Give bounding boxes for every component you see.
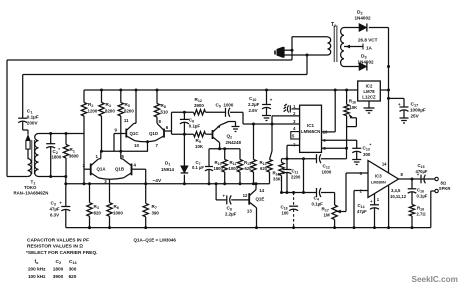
svg-text:1N914: 1N914 <box>161 167 174 172</box>
resistor R16 <box>346 90 348 104</box>
diode D1 <box>181 166 189 173</box>
capacitor C2 lead top <box>50 134 52 144</box>
svg-text:+: + <box>223 194 226 199</box>
node C6 bottom <box>183 133 186 136</box>
capacitor C10 <box>262 104 271 106</box>
svg-text:1000: 1000 <box>322 170 332 175</box>
resistor R12 <box>194 110 206 115</box>
node Q1B base bias <box>144 182 147 185</box>
svg-text:1000: 1000 <box>113 210 123 215</box>
svg-text:2.6V: 2.6V <box>249 108 258 113</box>
wire IC3 ground pins <box>388 186 390 228</box>
wire R15 top <box>281 159 283 163</box>
wire pin 10 to +12V <box>322 131 336 133</box>
capacitor C7 <box>205 166 213 168</box>
wire pin2 riser <box>271 116 273 124</box>
transistor Q1D <box>163 129 165 138</box>
svg-text:Q1A–Q1E = LM3046: Q1A–Q1E = LM3046 <box>134 238 177 243</box>
svg-text:10: 10 <box>134 143 139 148</box>
capacitor C9 <box>225 108 227 117</box>
transformer T1 core <box>31 140 33 174</box>
svg-text:1000: 1000 <box>229 166 239 171</box>
node C18 top <box>292 191 295 194</box>
svg-text:3,4,5: 3,4,5 <box>391 188 401 193</box>
node R17 bottom <box>333 226 336 229</box>
wire AC line A to T1 primary bottom <box>7 176 28 178</box>
node Q1C collector top <box>135 89 138 92</box>
node C17 junction <box>387 97 390 100</box>
capacitor C6 <box>183 112 185 119</box>
wire C9 down corner <box>230 111 243 113</box>
svg-text:1A: 1A <box>366 46 373 51</box>
wire IC3 pin1 to C14 <box>374 194 376 205</box>
svg-text:2.2µF: 2.2µF <box>248 102 260 107</box>
svg-text:Q1A: Q1A <box>97 166 107 171</box>
svg-text:IC1: IC1 <box>307 123 315 128</box>
capacitor C17 <box>400 106 409 108</box>
wire D1 to bias rail <box>183 175 185 184</box>
transformer T1 primary winding <box>28 159 32 177</box>
svg-text:620: 620 <box>260 166 268 171</box>
svg-text:390: 390 <box>152 211 160 216</box>
wire R5 bottom lead <box>120 116 122 151</box>
node Q1A base bias <box>83 182 86 185</box>
svg-text:100 kHz: 100 kHz <box>28 274 46 279</box>
node D3 cathode junction <box>387 65 390 68</box>
svg-text:Q1D: Q1D <box>149 131 158 136</box>
T2 center tap <box>344 46 363 48</box>
svg-text:200 kHz: 200 kHz <box>28 267 46 272</box>
node pin7 filter node <box>286 157 289 160</box>
svg-text:2200: 2200 <box>291 175 301 180</box>
capacitor C8 rail tap <box>215 184 217 200</box>
node C2 top <box>49 132 52 135</box>
svg-text:3900: 3900 <box>194 103 204 108</box>
wire C12 audio drop <box>303 159 305 193</box>
capacitor C12 <box>316 154 318 163</box>
node R8 top <box>156 89 159 92</box>
resistor R8 <box>156 90 158 104</box>
wire C16 to R18 <box>411 192 413 205</box>
wire C7 to rail <box>208 170 210 184</box>
wire bracket to R10 <box>224 149 226 160</box>
wire Q1D base riser <box>171 112 173 134</box>
svg-text:1N4002: 1N4002 <box>358 59 375 64</box>
svg-text:1000µF: 1000µF <box>410 108 426 113</box>
wire R2 to Q1A base node <box>83 116 85 184</box>
node Q1B collector junction <box>119 150 122 153</box>
resistor R7 <box>143 203 148 216</box>
wire Q1C base down <box>113 134 115 152</box>
node C11 bottom <box>286 191 289 194</box>
node Q1E collector on rail <box>255 182 258 185</box>
svg-text:8Ω: 8Ω <box>441 181 447 186</box>
svg-text:0.1µF: 0.1µF <box>189 123 201 128</box>
wire pin 9 to C13 <box>322 139 357 141</box>
svg-text:LM565CN: LM565CN <box>301 129 320 134</box>
node C7 bottom <box>208 182 211 185</box>
resistor R11 <box>237 160 242 173</box>
capacitor C18 <box>289 205 298 207</box>
svg-text:14: 14 <box>259 188 264 193</box>
svg-text:LM380N: LM380N <box>371 180 386 185</box>
svg-text:1000: 1000 <box>224 103 234 108</box>
IC1 pin 4-5 loop <box>291 132 300 139</box>
svg-text:1200: 1200 <box>88 108 98 113</box>
node D1 bottom <box>183 182 186 185</box>
resistor R14 <box>251 160 256 173</box>
wire C6 top line <box>172 111 194 113</box>
T1 tuning slug arrow <box>26 134 31 140</box>
resistor R4 <box>101 90 103 103</box>
node R4 top <box>100 89 103 92</box>
resistor R2 <box>83 90 85 103</box>
transistor Q1B <box>131 164 133 176</box>
wire AC line B long run <box>23 74 307 76</box>
resistor R3 <box>89 184 91 203</box>
transformer T2 secondary winding <box>341 28 344 67</box>
capacitor C8 <box>226 195 228 204</box>
node R1 top <box>65 132 68 135</box>
node R16 top <box>345 89 348 92</box>
svg-text:1M: 1M <box>324 213 330 218</box>
wire Q2 collector bracket <box>209 148 240 150</box>
svg-text:200V: 200V <box>27 121 39 126</box>
wire R13 top <box>271 124 273 151</box>
svg-text:1800: 1800 <box>53 267 64 272</box>
speaker terminal top <box>435 177 438 180</box>
wire ground bus <box>66 227 431 229</box>
svg-text:CAPACITOR VALUES IN PF: CAPACITOR VALUES IN PF <box>27 238 89 244</box>
wire rectified supply rail <box>388 67 390 173</box>
svg-text:100: 100 <box>282 211 290 216</box>
wire AC line A down <box>291 50 293 60</box>
svg-text:IC3: IC3 <box>375 174 382 179</box>
node R6 bottom <box>108 226 111 229</box>
resistor R13 <box>267 160 272 173</box>
node C6 top <box>183 111 186 114</box>
node Q1E emitter on bus <box>255 226 258 229</box>
svg-text:510: 510 <box>161 109 169 114</box>
wire tank bottom line <box>39 176 66 178</box>
svg-text:12: 12 <box>243 193 248 198</box>
svg-text:+: + <box>398 102 401 107</box>
PLL IC1 box <box>300 105 322 152</box>
node output junction <box>411 178 414 181</box>
svg-text:Q1E: Q1E <box>256 197 265 202</box>
svg-text:Q1C: Q1C <box>130 131 140 136</box>
wire C13 to ground <box>356 152 358 160</box>
svg-text:−4V: −4V <box>153 178 162 184</box>
transistor Q1C <box>125 129 127 138</box>
node C2 bottom <box>49 175 52 178</box>
wire emitter to R6 <box>109 179 111 202</box>
ground at Q2 <box>232 126 240 128</box>
capacitor C18 dashed leads <box>293 193 295 207</box>
svg-text:*: * <box>58 147 60 152</box>
svg-text:11: 11 <box>124 118 129 123</box>
resistor R10 <box>222 160 227 173</box>
wire C10 to ground <box>266 108 268 116</box>
resistor R15 <box>279 163 284 176</box>
wire AC line A left drop <box>6 60 8 177</box>
svg-text:3900: 3900 <box>53 274 64 279</box>
wire C12 line <box>282 158 317 160</box>
transformer T2 core <box>333 26 335 63</box>
svg-text:+: + <box>270 98 273 103</box>
wire C4 to R17 <box>321 192 335 194</box>
wire C6 node to D1 <box>183 134 185 166</box>
node R10 bottom <box>223 182 226 185</box>
transistor Q2 <box>212 130 214 139</box>
node R7 bottom <box>144 226 147 229</box>
svg-text:0.1µF: 0.1µF <box>27 115 39 120</box>
svg-text:2.7Ω: 2.7Ω <box>417 212 426 217</box>
capacitor C2 <box>46 143 55 145</box>
node R1 bottom <box>64 175 67 178</box>
node Q1CD emitters <box>146 140 149 143</box>
svg-text:26.8 VCT: 26.8 VCT <box>358 38 378 43</box>
svg-text:2N4248: 2N4248 <box>226 140 242 145</box>
svg-text:33K: 33K <box>273 177 281 182</box>
wire C12 to pin8 node <box>321 158 347 160</box>
wire C17 branch <box>389 97 405 99</box>
wire R12 to C9 <box>206 111 226 113</box>
wire speaker return <box>431 190 435 192</box>
wire +12V bus <box>84 89 358 91</box>
wire first-stage collector line <box>101 150 149 152</box>
wire Q1C Q1D emitters join <box>135 141 156 142</box>
wire emitters to collector line <box>147 142 149 152</box>
capacitor C16 tap <box>411 179 413 189</box>
wire C1 to tuning arrow <box>22 122 24 130</box>
resistor R5 <box>120 90 122 103</box>
node R11 bottom <box>239 182 242 185</box>
node R13 top junction <box>271 123 274 126</box>
svg-text:3600: 3600 <box>69 154 79 159</box>
node R5 top <box>119 89 122 92</box>
svg-text:10,11,12: 10,11,12 <box>390 194 407 199</box>
ground below C17 <box>400 117 409 119</box>
svg-text:14: 14 <box>382 161 387 166</box>
svg-text:TOKO: TOKO <box>24 185 37 190</box>
node R14 top junction <box>252 123 255 126</box>
svg-text:0.1µF: 0.1µF <box>417 194 428 199</box>
svg-text:1800: 1800 <box>52 155 62 160</box>
capacitor C1 <box>18 117 27 119</box>
svg-text:10K: 10K <box>195 144 204 149</box>
svg-text:SeekIC.com: SeekIC.com <box>412 275 458 284</box>
resistor R18 <box>409 205 414 217</box>
svg-text:*SELECT FOR CARRIER FREQ.: *SELECT FOR CARRIER FREQ. <box>26 250 97 256</box>
transistor Q1A <box>90 164 92 176</box>
wire bracket to R11 <box>239 149 241 160</box>
AC plug P1 <box>277 47 284 59</box>
svg-text:1800: 1800 <box>214 166 224 171</box>
node LM565 pin10 junction <box>334 89 337 92</box>
svg-text:LM78: LM78 <box>363 89 375 94</box>
node IC2 input junction <box>387 89 390 92</box>
wire plug riser to T2 primary top <box>291 37 293 51</box>
svg-text:820: 820 <box>94 210 102 215</box>
wire R9 line <box>172 133 194 135</box>
wire IC3 output <box>399 178 435 180</box>
node C8 rail junction <box>215 182 218 185</box>
IC1 pin 1 cap <box>292 108 300 110</box>
resistor R6 <box>107 203 112 217</box>
svg-text:Q1B: Q1B <box>115 166 124 171</box>
wire C17 to ground <box>403 111 405 119</box>
svg-text:+: + <box>59 201 62 206</box>
svg-text:47µF: 47µF <box>357 209 367 214</box>
svg-text:300: 300 <box>363 152 371 157</box>
svg-text:620: 620 <box>69 274 77 279</box>
wire T2 secondary top to D2 <box>344 27 359 29</box>
wire bracket to C7 <box>208 149 210 167</box>
svg-text:RESISTOR VALUES IN Ω: RESISTOR VALUES IN Ω <box>27 244 83 250</box>
svg-text:300: 300 <box>69 267 77 272</box>
audio amplifier IC3 <box>368 161 399 198</box>
wire C3 to ground bus <box>65 210 67 228</box>
node Q2 bracket <box>218 147 221 150</box>
svg-text:10K: 10K <box>350 105 358 110</box>
wire pin7 drop <box>287 144 300 146</box>
capacitor C16 <box>408 188 417 190</box>
capacitor C4 <box>316 188 318 197</box>
R17 wiper <box>336 210 341 214</box>
transformer T1 secondary winding <box>35 134 39 177</box>
capacitor C2 lead bottom <box>50 147 52 177</box>
node C12 drop bottom <box>302 191 305 194</box>
node pin 8 junction <box>345 147 348 150</box>
svg-text:8200: 8200 <box>105 108 115 113</box>
R16 wiper loop <box>348 113 352 119</box>
wire IC2 output to +12V bus <box>380 89 388 91</box>
resistor R9 <box>194 132 206 137</box>
resistor R17 volume pot <box>332 205 337 220</box>
svg-text:1N4002: 1N4002 <box>355 16 372 21</box>
node R14 bottom <box>252 182 255 185</box>
svg-text:SPKR: SPKR <box>439 186 451 191</box>
capacitor C3 <box>61 206 70 208</box>
ground below IC2 <box>364 107 375 109</box>
svg-text:*: * <box>370 143 372 148</box>
node IC3 pin2 ground <box>353 226 356 229</box>
node R10 top <box>223 147 226 150</box>
svg-text:47µF: 47µF <box>50 207 60 212</box>
voltage regulator IC2 <box>358 81 381 101</box>
wire arrow to T1 primary top <box>27 149 29 159</box>
node Q1A collector junction <box>100 150 103 153</box>
wire plug upper prong <box>284 49 293 51</box>
diode D3 <box>359 62 367 70</box>
node plug upper prong junction <box>291 49 294 52</box>
speaker terminal bottom <box>435 189 438 192</box>
wire R4 bottom lead <box>101 116 103 151</box>
wire AC line B down <box>306 55 308 75</box>
svg-text:6.3V: 6.3V <box>50 213 59 218</box>
node C18 bottom <box>292 226 295 229</box>
svg-text:470µF: 470µF <box>416 169 428 174</box>
capacitor C13 <box>352 147 361 149</box>
svg-text:L12CZ: L12CZ <box>362 95 376 100</box>
node IC3 ground pins on bus <box>387 226 390 229</box>
wire AC line A long run <box>7 59 292 61</box>
svg-text:RAN–10A6849ZN: RAN–10A6849ZN <box>14 191 49 196</box>
resistor R1 <box>65 134 67 145</box>
node R15 bottom <box>280 191 283 194</box>
wire AC line B left drop to C1 <box>22 75 24 119</box>
node R18 bottom <box>411 226 414 229</box>
node C12 drop top <box>302 157 305 160</box>
wire audio output line <box>282 192 317 194</box>
wire IC3 pin2 input <box>354 190 368 192</box>
wire -4V bias rail <box>66 183 270 185</box>
capacitor C10 lead <box>266 90 268 105</box>
svg-text:620: 620 <box>245 166 253 171</box>
diode D2 <box>359 23 367 31</box>
wire PLL input line <box>243 123 300 125</box>
capacitor C11 <box>286 159 288 170</box>
svg-text:13: 13 <box>247 209 252 214</box>
wire IC2 ground <box>368 101 370 108</box>
wire Q1B base to R7 <box>145 169 147 203</box>
wire R9 to Q2 base <box>206 133 213 135</box>
node C14 bottom <box>373 226 376 229</box>
node T2 primary bottom junction <box>306 54 309 57</box>
wire C8 to Q1E base <box>231 199 249 201</box>
transistor Q1E <box>248 193 250 205</box>
wire pin 8 to R16 node <box>322 147 347 149</box>
svg-text:2.2µF: 2.2µF <box>225 212 237 217</box>
wire Q1A Q1B emitters join <box>99 178 124 179</box>
wire T2 secondary bottom to D3 <box>344 66 359 68</box>
node tank return on bias rail <box>64 182 67 185</box>
node R3 bus <box>88 226 91 229</box>
wire tank return down <box>65 177 67 207</box>
node C10 top <box>265 89 268 92</box>
svg-text:0.1 µF: 0.1 µF <box>192 165 204 170</box>
wire R14 top <box>253 124 255 160</box>
svg-text:IC2: IC2 <box>366 84 373 89</box>
node R3 top <box>88 182 91 185</box>
wire D2 to supply rail <box>369 27 389 29</box>
svg-text:8200: 8200 <box>124 108 134 113</box>
ground below C10 <box>262 115 271 117</box>
capacitor C15 <box>420 175 422 184</box>
wire wiper to IC3 pin6 <box>345 173 347 212</box>
transformer T2 primary winding <box>328 37 331 55</box>
node R3 bottom <box>88 226 91 229</box>
wire C14 to bus <box>374 208 376 228</box>
wire tank top line <box>39 133 85 135</box>
capacitor C14 <box>370 204 379 206</box>
ground below C13 <box>352 159 361 161</box>
svg-text:25V: 25V <box>411 114 420 119</box>
wire plug lower prong <box>284 54 328 56</box>
